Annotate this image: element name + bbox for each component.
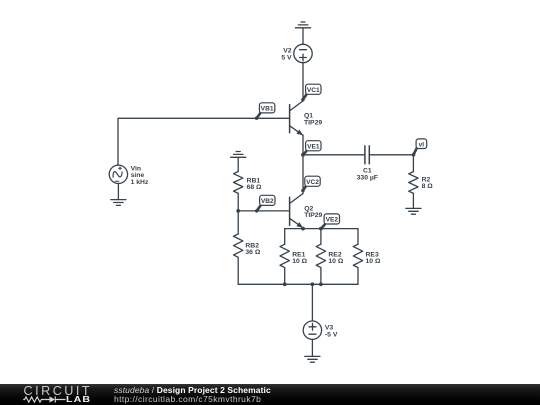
junction node Q2 emitter on rail <box>301 227 305 231</box>
svg-text:10 Ω: 10 Ω <box>292 258 307 265</box>
wire RB1 to node <box>237 193 239 211</box>
svg-text:VC1: VC1 <box>307 87 320 94</box>
label C1 330 uF <box>357 167 378 181</box>
wire VE1 rail to C1 <box>303 154 365 156</box>
label V3 -5 V <box>325 325 338 339</box>
svg-text:5 V: 5 V <box>281 54 292 61</box>
junction node RE2 top <box>319 227 323 231</box>
wire VE1 node down to Q2 collector <box>302 155 304 194</box>
ground (below V3) <box>305 356 320 362</box>
resistor RE3 <box>353 229 362 285</box>
transistor Q2 <box>290 194 303 228</box>
junction node RE1 bottom <box>283 282 287 286</box>
svg-text:TIP29: TIP29 <box>304 119 322 126</box>
svg-text:36 Ω: 36 Ω <box>245 249 260 256</box>
node flag vl <box>412 139 427 157</box>
CircuitLab logo resistor-diode glyph <box>23 394 68 405</box>
node flag VC1 <box>301 84 321 101</box>
svg-text:VE2: VE2 <box>326 217 339 224</box>
wire ground to V2 <box>302 28 304 44</box>
wire ground to RB1 <box>237 157 239 171</box>
wire rail to V3 <box>311 284 313 321</box>
node flag VE2 <box>321 214 340 229</box>
svg-text:8 Ω: 8 Ω <box>422 183 434 190</box>
junction node V3 tap <box>311 282 315 286</box>
label RB1 68 ohm <box>247 177 262 191</box>
svg-text:68 Ω: 68 Ω <box>247 184 262 191</box>
junction node VE1 <box>301 153 305 157</box>
svg-text:1 kHz: 1 kHz <box>131 179 149 186</box>
node flag VC2 <box>301 176 320 192</box>
wire Q1 emitter down to VE1 node <box>302 135 304 155</box>
voltage source V3 <box>303 321 321 339</box>
resistor RB1 <box>234 172 243 194</box>
svg-text:VB1: VB1 <box>261 106 274 113</box>
CircuitLab logo wordmark <box>24 385 93 397</box>
svg-text:C1: C1 <box>363 167 372 174</box>
node flag VB2 <box>255 195 275 212</box>
svg-text:vl: vl <box>419 141 425 148</box>
wire bottom rail <box>238 283 358 285</box>
resistor RE2 <box>316 229 325 285</box>
wire vl node to R2 <box>412 155 414 172</box>
wire RE rail <box>285 228 358 230</box>
voltage source V2 <box>294 44 312 62</box>
svg-text:10 Ω: 10 Ω <box>366 258 381 265</box>
svg-text:-5 V: -5 V <box>325 332 338 339</box>
wire V2 to Q1 collector <box>302 63 304 101</box>
label Vin sine 1 kHz <box>131 165 149 186</box>
ground (below R2) <box>406 208 421 214</box>
label RE1 10 ohm <box>292 251 307 265</box>
transistor Q1 <box>290 101 303 135</box>
wire R2 to ground <box>412 193 414 208</box>
ground (below Vin) <box>111 200 126 206</box>
label V2 5 V <box>281 47 292 61</box>
label R2 8 ohm <box>422 176 434 190</box>
wire Q1 base to Vin <box>118 118 290 165</box>
ground (top, inverted, above V2) <box>295 22 310 28</box>
junction node RB1/RB2/Q2 base <box>236 209 240 213</box>
label Q1 TIP29 <box>304 113 322 127</box>
wire C1 to vl node <box>369 154 413 156</box>
label Q2 TIP29 <box>304 205 322 219</box>
resistor R2 <box>409 172 418 194</box>
CircuitLab logo LAB text <box>66 396 91 404</box>
svg-text:VE1: VE1 <box>307 143 320 150</box>
label RB2 36 ohm <box>245 243 260 257</box>
wire V3 to ground <box>311 339 313 356</box>
footer title line <box>114 386 271 395</box>
footer bar <box>0 384 540 405</box>
wire node to Q2 base <box>238 210 289 212</box>
wire Q2 emitter to RE rail <box>302 227 304 230</box>
ground (inverted, above RB1) <box>231 152 246 158</box>
svg-text:TIP29: TIP29 <box>304 212 322 219</box>
voltage source Vin (sine) <box>109 165 127 183</box>
svg-text:330 µF: 330 µF <box>357 174 378 181</box>
capacitor C1 <box>365 146 369 164</box>
svg-text:10 Ω: 10 Ω <box>328 258 343 265</box>
junction node RE2 bottom <box>319 282 323 286</box>
resistor RE1 <box>280 229 289 285</box>
resistor RB2 <box>234 211 243 284</box>
label RE2 10 ohm <box>328 251 343 265</box>
footer url line <box>114 395 261 404</box>
node flag VB1 <box>255 103 275 120</box>
svg-text:VC2: VC2 <box>306 179 319 186</box>
node flag VE1 <box>303 141 321 155</box>
svg-text:VB2: VB2 <box>261 198 274 205</box>
wire Vin to ground <box>117 184 119 200</box>
label RE3 10 ohm <box>366 251 381 265</box>
